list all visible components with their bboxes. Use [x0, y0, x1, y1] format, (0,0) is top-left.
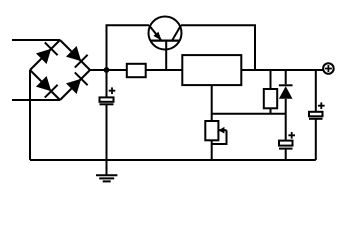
wire — [270, 108, 272, 113]
voltage regulator U1 — [182, 55, 241, 85]
output terminal — [323, 63, 334, 74]
diode D4 — [66, 72, 88, 94]
diode D5 — [279, 70, 293, 141]
wire — [181, 25, 255, 70]
potentiometer P1 — [205, 121, 226, 160]
wire — [12, 99, 60, 101]
capacitor C3 — [279, 132, 295, 160]
wire — [12, 39, 60, 41]
bridge rectifier BR1 — [30, 40, 90, 100]
wire — [315, 70, 317, 112]
wire — [211, 85, 213, 121]
wire — [241, 69, 322, 71]
wire — [90, 69, 127, 71]
wire — [30, 159, 316, 161]
capacitor C1 — [100, 70, 116, 160]
wire — [29, 70, 31, 160]
resistor R1 — [127, 64, 146, 77]
node A — [104, 67, 110, 73]
diode D2 — [66, 46, 88, 68]
wire — [146, 69, 183, 71]
wire — [212, 113, 286, 115]
diode D1 — [36, 42, 58, 64]
resistor R2 — [264, 89, 277, 108]
wire — [107, 25, 150, 70]
ground — [96, 160, 117, 181]
transistor Q1 — [149, 17, 182, 71]
wire — [270, 70, 272, 89]
diode D3 — [36, 76, 58, 98]
capacitor C2 — [309, 102, 325, 160]
